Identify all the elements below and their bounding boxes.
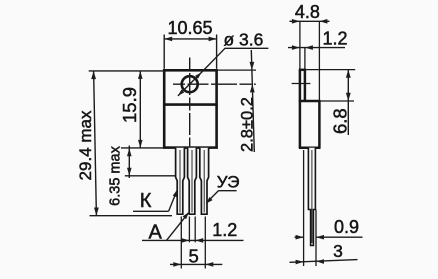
svg-text:УЭ: УЭ	[217, 173, 240, 192]
label K leader	[169, 191, 177, 211]
svg-text:2.8±0.2: 2.8±0.2	[239, 97, 257, 152]
horizontal centerline	[173, 83, 256, 85]
vertical centerline	[189, 58, 191, 150]
dimension 1.2 (front): dimension line with A shelf	[142, 239, 244, 241]
dimension 1.2 (side): extension line	[304, 48, 306, 69]
label K shelf line	[133, 210, 169, 212]
dimension 1.2 (front): arrows	[181, 238, 203, 243]
dimension 5: arrows	[173, 262, 213, 267]
svg-text:К: К	[140, 190, 152, 212]
dimension 6.8: arrows	[346, 70, 351, 101]
lead A centerline	[191, 150, 193, 213]
dimension 0.9: right segment	[316, 236, 362, 238]
dimension 10.65: text	[167, 18, 212, 38]
lead A (middle)	[188, 148, 197, 215]
lead UE (right)	[200, 148, 209, 215]
dimension 10.65: arrows	[164, 37, 216, 42]
lead K centerline	[179, 150, 181, 213]
side view: lead upper part	[308, 148, 315, 246]
side view: hole center tick	[292, 83, 311, 85]
dimension 0.9: arrows	[296, 235, 324, 240]
label UE shelf line	[218, 190, 236, 192]
dimension 2.8±0.2: arrows	[250, 62, 255, 92]
dimension 1.2 (front): text	[212, 220, 237, 240]
svg-text:29.4 max: 29.4 max	[76, 110, 95, 180]
dimension 3: dimension line	[290, 260, 358, 263]
label A leader	[167, 213, 189, 241]
svg-text:1.2: 1.2	[212, 220, 237, 240]
label UE leader arrow	[206, 197, 213, 204]
dimension 6.35 max: dimension line	[128, 146, 130, 179]
value label Ø 3.6	[224, 30, 264, 50]
dimension 5: extension lines	[181, 217, 205, 269]
mounting hole	[182, 76, 198, 92]
dimension 6.8: top extension line	[306, 69, 355, 71]
dimension 6.35 max: shoulder extension line	[125, 175, 178, 177]
dimension 29.4 max: bottom extension line	[90, 215, 173, 217]
side view: tab back edge	[299, 70, 302, 148]
leader arrow NE	[195, 72, 201, 78]
dimension 6.35 max: text	[108, 145, 124, 205]
dimension 15.9: bottom extension line	[121, 147, 164, 149]
dimension 29.4 max: dimension line	[94, 71, 97, 216]
dimension 5: text	[189, 246, 199, 267]
lead UE centerline	[203, 150, 205, 213]
svg-text:6.8: 6.8	[329, 108, 350, 134]
dimension 0.9: left segment with arrow	[295, 236, 304, 238]
dimension 1.2 (front): extension lines	[189, 217, 195, 243]
dimension 5: dimension line	[170, 263, 222, 265]
dimension 2.8±0.2: dimension line	[251, 50, 254, 152]
dimension 10.65: dimension line	[164, 38, 216, 40]
dimension 1.2 (side): arrows	[292, 45, 313, 50]
svg-text:15.9: 15.9	[119, 87, 140, 123]
hole diameter leader line	[178, 48, 269, 96]
dimension 29.4 max: arrows	[91, 71, 99, 216]
tab/body divider line	[163, 103, 218, 106]
svg-text:3: 3	[333, 241, 343, 261]
dimension 15.9: dimension line	[139, 71, 141, 148]
dimension 6.8: bottom extension line	[321, 100, 355, 102]
dimension 6.8: dimension line	[347, 70, 349, 135]
dimension 2.8±0.2: text	[239, 97, 257, 152]
dimension 1.2 (side): dimension line	[288, 47, 345, 49]
side view: lead centerline	[311, 150, 313, 243]
dimension 1.2 (side): text	[322, 28, 347, 48]
dimension 15.9: arrows	[138, 71, 143, 148]
dimension 6.35 max: arrows	[127, 148, 132, 176]
dimension 6.8: text	[329, 108, 350, 134]
dimension 29.4 max: top extension line	[89, 70, 164, 72]
side view: tab top edge	[299, 69, 306, 72]
svg-text:4.8: 4.8	[295, 2, 320, 22]
dimension 4.8: arrows	[292, 19, 328, 24]
dimension 3: extension lines	[304, 150, 316, 266]
dimension 29.4 max: text	[76, 110, 95, 180]
package front view outline	[164, 70, 216, 147]
dimension 3: arrows	[296, 259, 324, 264]
label UE	[217, 173, 240, 192]
label UE leader	[207, 191, 219, 203]
svg-text:5: 5	[189, 246, 199, 267]
dimension 4.8: text	[295, 2, 320, 22]
label K	[140, 190, 152, 212]
svg-text:10.65: 10.65	[167, 18, 212, 38]
dimension 4.8: extension lines	[300, 21, 320, 100]
lead K (left)	[176, 148, 185, 215]
svg-text:ø 3.6: ø 3.6	[224, 30, 264, 50]
leader arrow SW	[178, 90, 184, 96]
side view: body top edge	[299, 100, 321, 103]
side view: body front edge	[318, 101, 321, 148]
dimension 2.8±0.2: top extension line	[218, 69, 257, 71]
dimension 15.9: text	[119, 87, 140, 123]
side view: tab front edge	[304, 70, 307, 101]
svg-text:6.35 max: 6.35 max	[108, 145, 124, 205]
label A	[149, 221, 163, 243]
dimension 4.8: dimension line	[290, 20, 330, 22]
label K leader arrow	[173, 190, 178, 198]
dimension 10.65: extension lines	[164, 35, 216, 69]
svg-text:1.2: 1.2	[322, 28, 347, 48]
label A leader arrow	[183, 212, 189, 219]
side view: body bottom edge	[299, 146, 321, 149]
dimension 0.9: text	[334, 217, 359, 237]
dimension 3: text	[333, 241, 343, 261]
svg-text:0.9: 0.9	[334, 217, 359, 237]
